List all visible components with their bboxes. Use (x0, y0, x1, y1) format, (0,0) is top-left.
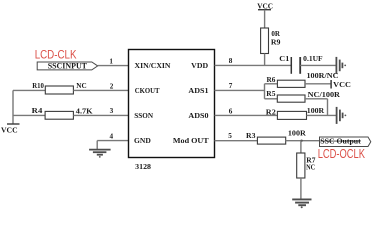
svg-text:CKOUT: CKOUT (135, 86, 160, 95)
svg-text:XIN/CXIN: XIN/CXIN (135, 61, 172, 70)
ground (after C1, rotated) (336, 57, 346, 74)
wire to R5 (265, 98, 278, 100)
svg-text:VCC: VCC (1, 125, 18, 134)
svg-text:R9: R9 (271, 37, 281, 46)
wire junction down to R7 (300, 141, 302, 153)
svg-text:C1: C1 (279, 54, 289, 63)
svg-text:NC: NC (306, 163, 315, 172)
power VCC (right of R6) (331, 80, 351, 89)
connector SSCINPUT (37, 61, 97, 70)
wire R9 to pin8 wire (264, 54, 266, 67)
wire to R6 (265, 83, 278, 85)
svg-text:LCD-CLK: LCD-CLK (35, 48, 77, 62)
wire pin4 (97, 140, 128, 142)
node junction R7 (300, 140, 302, 142)
svg-text:100R/NC: 100R/NC (307, 71, 339, 80)
wire pin3 (left rail to R4) (13, 114, 45, 116)
resistor R2 (277, 111, 306, 119)
wire pin7 junction vertical (264, 84, 266, 99)
svg-text:3128: 3128 (135, 162, 151, 171)
wire VCC to R9 (264, 10, 266, 28)
svg-text:R5: R5 (266, 89, 276, 98)
resistor R6 (277, 80, 305, 87)
wire left rail vertical (12, 90, 14, 124)
wire R6 to VCC tick (305, 83, 331, 85)
wire R10 to pin2 (73, 89, 128, 91)
svg-text:VCC: VCC (333, 80, 351, 89)
chip U1 3128 box (129, 50, 215, 158)
resistor R5 (277, 95, 305, 102)
svg-text:NC/100R: NC/100R (308, 90, 341, 99)
resistor R7 (297, 153, 305, 178)
wire R4 to pin3 (73, 114, 128, 116)
svg-text:SSC Output: SSC Output (320, 136, 361, 145)
svg-text:R2: R2 (266, 107, 276, 116)
resistor R3 (257, 137, 285, 144)
svg-text:R10: R10 (32, 81, 44, 90)
wire pin7 (215, 89, 265, 91)
power VCC (bottom left) (1, 124, 20, 134)
wire R5 right (305, 98, 328, 100)
wire pin5 (215, 140, 258, 142)
svg-text:Mod OUT: Mod OUT (173, 136, 209, 145)
svg-text:100R: 100R (288, 129, 307, 138)
svg-text:2: 2 (110, 82, 114, 90)
svg-text:8: 8 (229, 57, 233, 65)
capacitor C1 (291, 57, 300, 74)
wire pin8 (215, 64, 292, 66)
svg-text:R3: R3 (246, 131, 256, 140)
svg-text:R4: R4 (32, 106, 43, 115)
svg-text:SSON: SSON (134, 111, 153, 120)
svg-text:4.7K: 4.7K (76, 106, 93, 115)
ground (below R7) (292, 199, 311, 208)
wire pin2 (left rail to R10) (13, 89, 45, 91)
wire R5 down to pin6 net (327, 99, 329, 116)
svg-text:R6: R6 (267, 75, 276, 84)
svg-text:ADS1: ADS1 (188, 86, 208, 95)
svg-text:5: 5 (228, 132, 232, 140)
resistor R9 (261, 28, 269, 54)
wire pin6 (215, 114, 278, 116)
svg-text:ADS0: ADS0 (188, 111, 208, 120)
wire pin1 (98, 65, 129, 67)
svg-text:LCD-OCLK: LCD-OCLK (318, 146, 366, 161)
svg-text:NC: NC (76, 81, 86, 90)
svg-text:1: 1 (109, 58, 113, 66)
svg-text:3: 3 (110, 107, 114, 115)
wire R3 to connector (286, 140, 320, 142)
wire R7 to ground (300, 178, 302, 199)
svg-text:4: 4 (110, 132, 114, 140)
connector SSC Output (320, 136, 371, 146)
wire pin4 down (96, 141, 98, 150)
power VCC (top, above R9) (257, 2, 273, 11)
svg-text:GND: GND (134, 136, 151, 145)
wire R2 to ground (307, 114, 337, 116)
resistor R10 (45, 86, 73, 94)
svg-text:SSCINPUT: SSCINPUT (48, 61, 88, 70)
ground (pin4) (89, 150, 111, 158)
svg-text:100R: 100R (307, 106, 325, 115)
svg-text:7: 7 (229, 82, 233, 90)
svg-text:6: 6 (229, 107, 233, 115)
ground (after R2, rotated) (337, 107, 347, 124)
resistor R4 (45, 111, 73, 119)
svg-text:0.1UF: 0.1UF (303, 54, 323, 63)
svg-text:VDD: VDD (191, 61, 209, 70)
wire C1 to ground (300, 64, 336, 66)
